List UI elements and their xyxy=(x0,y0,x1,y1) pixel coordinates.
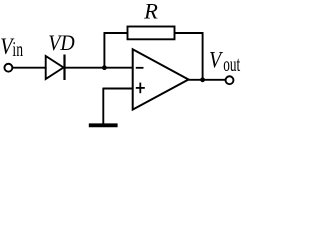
ground xyxy=(89,123,118,127)
wire feedback right vertical xyxy=(202,33,204,80)
wire non-inverting input to ground xyxy=(103,88,132,90)
label VD xyxy=(48,30,74,55)
svg-text:out: out xyxy=(223,52,240,76)
node output junction dot xyxy=(200,77,205,82)
wire feedback top right horizontal xyxy=(175,32,204,34)
wire ground vertical xyxy=(102,88,104,124)
node Vin input terminal xyxy=(4,64,12,72)
label Vout xyxy=(209,47,224,73)
op-amp inverting input minus sign xyxy=(136,67,144,69)
svg-text:R: R xyxy=(143,0,158,24)
node junction dot at inverting input xyxy=(102,65,107,70)
label Vin xyxy=(0,34,15,60)
svg-text:VD: VD xyxy=(48,30,74,55)
wire op-amp output to terminal xyxy=(189,79,226,81)
op-amp non-inverting input plus sign xyxy=(136,83,145,94)
wire feedback left vertical xyxy=(103,33,105,68)
resistor R xyxy=(128,27,175,40)
wire feedback top left horizontal xyxy=(104,32,128,34)
wire input terminal to diode xyxy=(13,67,47,69)
svg-text:in: in xyxy=(12,37,23,61)
wire diode to op-amp inverting input xyxy=(65,67,133,69)
diode VD xyxy=(46,55,65,81)
node Vout output terminal xyxy=(226,76,234,84)
op-amp U1 xyxy=(133,49,189,109)
